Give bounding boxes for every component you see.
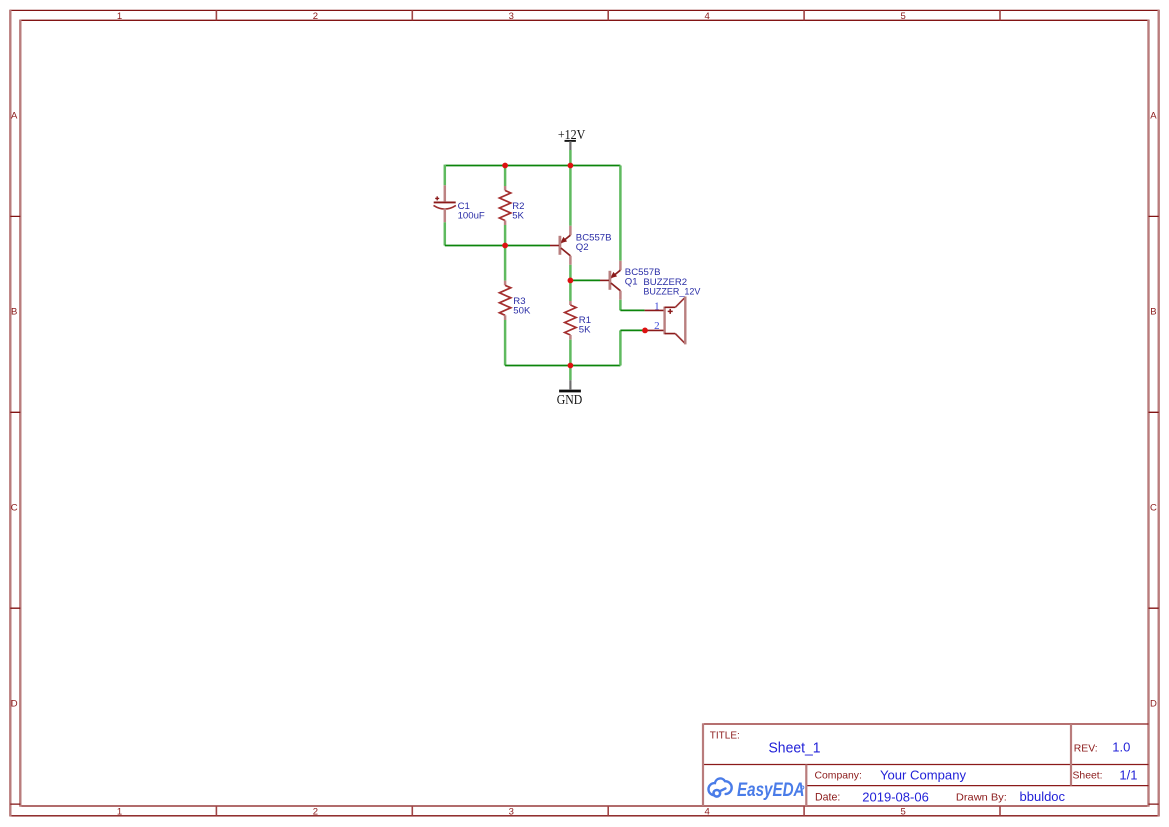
svg-text:Date:: Date: — [815, 791, 840, 803]
wire R2 top stub — [504, 166, 507, 187]
label BUZZER_12V — [643, 287, 701, 298]
svg-text:100uF: 100uF — [458, 211, 485, 222]
svg-text:5K: 5K — [579, 325, 591, 336]
svg-text:TITLE:: TITLE: — [710, 731, 740, 742]
transistor Q1 — [600, 261, 620, 300]
wire row2 horizontal — [445, 245, 550, 247]
junction at row2 R3 — [502, 243, 508, 249]
label Q1 — [625, 277, 638, 288]
wire Q1 collector down — [619, 300, 622, 311]
svg-text:3: 3 — [509, 806, 514, 817]
label BUZZER2 — [643, 277, 687, 288]
TITLEBLOCK — [702, 723, 1148, 806]
svg-text:4: 4 — [705, 11, 710, 22]
label C1 — [458, 201, 470, 212]
junction at R2 top — [502, 163, 508, 169]
svg-text:4: 4 — [705, 806, 710, 817]
power flag +12V — [558, 127, 586, 150]
label R3 — [513, 296, 525, 307]
svg-text:Q1: Q1 — [625, 277, 638, 288]
label Q2 — [576, 242, 589, 253]
svg-text:3: 3 — [509, 11, 514, 22]
label R2 — [512, 201, 524, 212]
svg-text:1/1: 1/1 — [1119, 767, 1137, 782]
label 5K (R2) — [512, 211, 524, 222]
svg-text:Sheet_1: Sheet_1 — [769, 739, 821, 756]
wire center rail to Q2 emitter — [569, 166, 572, 226]
svg-text:Q2: Q2 — [576, 242, 589, 253]
svg-text:D: D — [1150, 698, 1157, 709]
resistor R2 — [499, 186, 510, 225]
svg-text:+12V: +12V — [558, 127, 586, 142]
junction at +12V rail — [568, 163, 574, 169]
transistor Q2 — [550, 226, 570, 265]
label BC557B (Q2) — [576, 233, 612, 244]
label 50K — [513, 306, 531, 317]
wire left rail upper segment — [444, 165, 447, 186]
label 100uF — [458, 211, 485, 222]
svg-text:2: 2 — [313, 11, 318, 22]
svg-text:C: C — [1150, 502, 1157, 513]
svg-text:50K: 50K — [513, 306, 531, 317]
wire left rail lower segment — [444, 222, 447, 245]
EasyEDA logo — [708, 778, 803, 796]
svg-text:Sheet:: Sheet: — [1073, 770, 1103, 781]
wire bottom rail — [505, 365, 620, 367]
buzzer BUZZER2 — [645, 297, 686, 345]
svg-text:Company:: Company: — [815, 771, 862, 782]
svg-text:5: 5 — [900, 806, 905, 817]
wire R1 top — [569, 280, 572, 301]
wire top rail — [445, 165, 621, 167]
CIRCUIT — [434, 127, 701, 407]
svg-text:A: A — [11, 111, 18, 122]
svg-text:D: D — [11, 698, 18, 709]
junction at Q1 base node — [568, 278, 574, 284]
svg-text:B: B — [1150, 307, 1156, 318]
svg-text:1: 1 — [654, 301, 660, 313]
wire R3 bottom — [504, 320, 507, 366]
svg-text:Drawn By:: Drawn By: — [956, 792, 1007, 803]
wire Q2 collector down — [569, 265, 572, 281]
resistor R1 — [565, 301, 576, 340]
svg-text:2019-08-06: 2019-08-06 — [862, 789, 929, 804]
wire buzzer pin1 row — [620, 309, 644, 311]
svg-text:5K: 5K — [512, 211, 524, 222]
wire R3 top — [504, 246, 507, 281]
wire right rail to Q1 emitter — [619, 166, 622, 261]
wire +12V stub — [569, 150, 572, 166]
svg-text:1: 1 — [117, 11, 122, 22]
svg-text:Your Company: Your Company — [880, 767, 967, 782]
wire R2 bottom stub — [504, 225, 507, 246]
wire buzzer pin2 vertical — [619, 330, 622, 365]
svg-text:1: 1 — [117, 806, 122, 817]
svg-text:bbuldoc: bbuldoc — [1020, 789, 1066, 804]
label BC557B (Q1) — [625, 267, 661, 278]
svg-text:GND: GND — [557, 392, 583, 407]
svg-text:EasyEDA: EasyEDA — [737, 780, 805, 801]
resistor R3 — [499, 281, 510, 320]
junction at buzzer pin2 — [642, 328, 648, 334]
svg-text:B: B — [11, 307, 17, 318]
svg-text:1.0: 1.0 — [1112, 740, 1130, 755]
wire buzzer pin2 row — [620, 329, 645, 331]
wire Q1 base horizontal — [570, 279, 600, 281]
junction at GND node — [568, 363, 574, 369]
label R1 — [579, 315, 591, 326]
svg-text:5: 5 — [900, 11, 905, 22]
svg-text:REV:: REV: — [1074, 743, 1098, 754]
capacitor C1 — [434, 185, 456, 222]
svg-text:2: 2 — [313, 806, 318, 817]
ground GND — [557, 366, 583, 407]
pin number 2 — [654, 320, 660, 332]
svg-text:C: C — [11, 502, 18, 513]
label 5K (R1) — [579, 325, 591, 336]
pin number 1 — [654, 301, 660, 313]
svg-text:2: 2 — [654, 320, 660, 332]
svg-text:A: A — [1150, 111, 1157, 122]
svg-text:BUZZER_12V: BUZZER_12V — [643, 287, 701, 298]
wire R1 bottom — [569, 340, 572, 366]
